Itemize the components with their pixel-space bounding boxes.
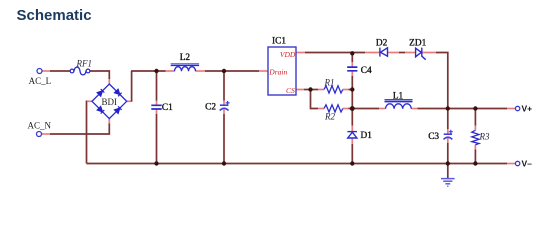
pin VDD red stub [296,52,305,54]
svg-text:AC_L: AC_L [29,76,51,86]
junction dot C1 top [154,69,158,73]
capacitor C2 polarized [220,101,230,111]
svg-text:R3: R3 [479,131,490,141]
inductor L1 [385,100,413,109]
svg-text:RF1: RF1 [76,59,93,69]
svg-text:Drain: Drain [268,67,287,76]
wire rail L2 to Drain pin of IC1 [205,70,259,72]
svg-text:Schematic: Schematic [17,7,92,24]
junction dot R3 top [473,106,477,110]
terminal AC_N [37,132,42,137]
wire rail R2/D1 junction to L1 [352,108,379,110]
svg-text:R1: R1 [324,78,335,88]
wire CS dot down to R2 line [311,90,319,109]
diode D1 [347,132,357,138]
junction dot C2 top [222,69,226,73]
wire R1 right lead [343,89,349,91]
wire ZD1 to right corner down to V+ rail [436,53,448,109]
wire R2 right lead [343,108,349,110]
svg-text:ZD1: ZD1 [409,38,426,48]
wire ground stub [447,164,449,179]
wire D1 vertical [351,109,353,126]
svg-text:C4: C4 [361,66,372,76]
wire CS to R1 [304,89,318,91]
svg-text:AC_N: AC_N [28,121,52,131]
bridge diode top-left [97,89,104,96]
svg-text:C3: C3 [428,132,439,142]
wire RF1 to corner, down to bridge top vertex [90,71,109,79]
wire C1 vertical [156,71,158,101]
terminal V+ [515,106,519,110]
bridge diode bottom-left [97,107,104,114]
wire bottom rail to V- terminal [87,163,508,165]
junction dot ZD1/C3 rail [446,106,450,110]
resistor R1 [324,86,343,93]
capacitor C4 [347,67,357,71]
inductor L2 [171,64,199,71]
svg-text:C1: C1 [162,103,173,113]
bridge rectifier BDI diamond [92,84,127,119]
wire D2 to ZD1 [399,52,405,54]
bridge diode bottom-right [115,106,122,113]
lead L1 right [411,108,417,110]
svg-text:C2: C2 [205,103,216,113]
lead ZD1 right [422,52,436,54]
wire bridge bottom vertex stub [108,119,110,124]
wire VDD to D2 [305,52,365,54]
ground symbol [441,179,455,187]
junction dot VDD/C4 [350,51,354,55]
resistor R3 [472,130,479,144]
svg-text:L2: L2 [180,53,191,63]
junction dot R1/C4 [350,87,354,91]
junction dot R3 bottom [473,161,477,165]
wire AC_N from terminal [42,133,50,135]
svg-text:VDD: VDD [280,50,296,59]
wire bridge right vertex up to DC rail [127,100,131,102]
wire C4 vertical from VDD dot [351,53,353,62]
wire AC_L from terminal to RF1 [42,70,50,72]
terminal AC_L [37,69,42,74]
lead D2 right [388,52,400,54]
svg-text:R2: R2 [324,111,335,121]
svg-text:D2: D2 [376,38,388,48]
svg-text:IC1: IC1 [272,37,286,47]
lead L1 left [379,108,386,110]
svg-text:D1: D1 [361,131,373,141]
terminal V- [515,161,519,165]
svg-text:BDI: BDI [102,97,118,107]
lead D2 left [365,52,380,54]
junction dot C1 bottom [154,161,158,165]
wire L2 right lead [196,70,206,72]
svg-text:V–: V– [522,159,533,169]
svg-text:L1: L1 [393,91,404,101]
wire C2 vertical [223,71,225,101]
capacitor C1 [151,105,161,109]
svg-text:V+: V+ [522,104,533,114]
wire R3 vertical [474,109,476,126]
op IC1 box [268,47,296,95]
resistor R2 [324,105,343,112]
lead ZD1 left [405,52,415,54]
wire bridge left vertex to down rail [88,100,93,102]
junction dot D1 bottom [350,161,354,165]
junction dot R2/L1/D1 [350,106,355,111]
wire L2 left lead [166,70,175,72]
capacitor C3 polarized [444,130,453,140]
bridge diode top-right [115,89,122,96]
pin CS red stub [296,89,304,91]
zener diode ZD1 [416,48,426,60]
diode D2 [380,48,388,57]
junction dot CS/R1/R2 [308,87,312,91]
wire C3 vertical [447,109,449,130]
pin Drain red stub [259,70,268,72]
junction dot C2 bottom [222,161,226,165]
junction dot C3/ground [446,161,450,165]
wire L1 to V+ terminal [418,108,508,110]
svg-text:CS: CS [286,86,295,95]
fusible resistor RF1 [70,67,90,75]
